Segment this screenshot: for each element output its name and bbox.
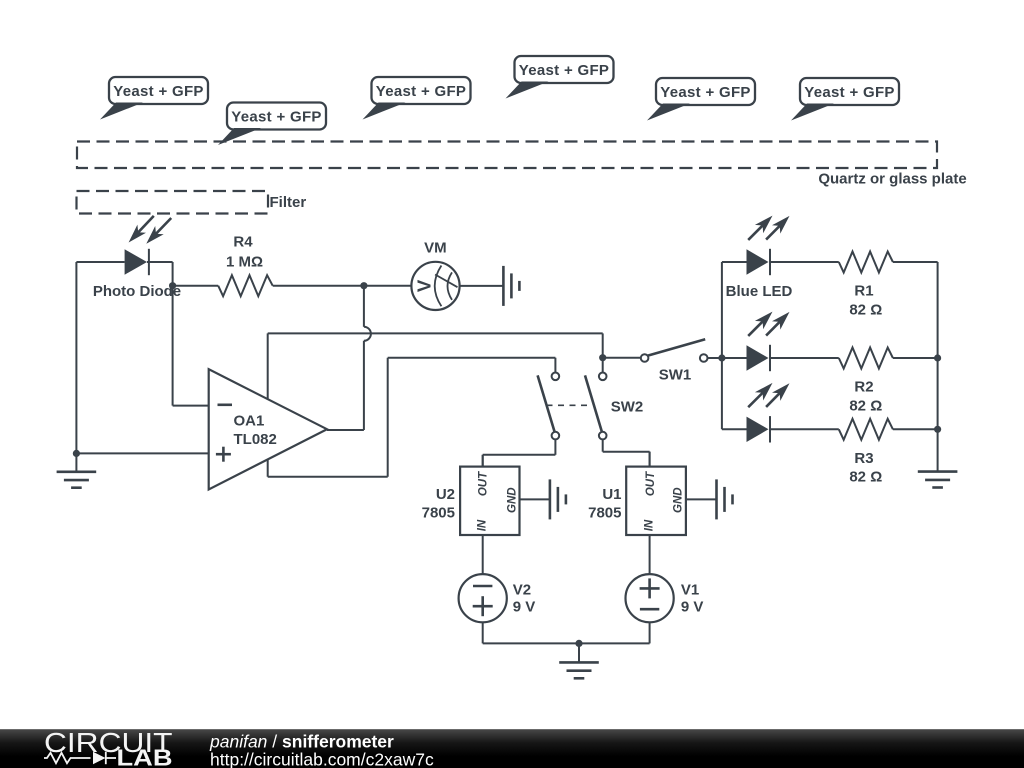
- wire: [722, 357, 747, 359]
- value 82 Ω: [849, 301, 882, 318]
- value 82 Ω: [849, 397, 882, 414]
- svg-text:R3: R3: [854, 450, 873, 467]
- light arrow into photodiode: [146, 218, 171, 244]
- label U2: [436, 486, 455, 503]
- wire: [893, 428, 938, 430]
- wire: [267, 333, 269, 476]
- svg-text:U2: U2: [436, 486, 455, 503]
- wire: [363, 341, 365, 430]
- blue LED (row R2): [747, 345, 771, 371]
- wire: [173, 285, 219, 287]
- svg-text:7805: 7805: [588, 505, 621, 522]
- wire: [268, 332, 603, 334]
- resistor R3: [839, 419, 893, 440]
- svg-text:http://circuitlab.com/c2xaw7c: http://circuitlab.com/c2xaw7c: [210, 749, 434, 768]
- speech bubble 'Yeast + GFP' #6: [791, 78, 899, 121]
- pin label OUT: [645, 471, 657, 496]
- light arrow out of LED: [748, 383, 772, 407]
- filter (dashed box): [77, 191, 269, 214]
- pin label IN: [643, 519, 655, 531]
- pin label IN: [476, 519, 488, 531]
- label V1: [681, 582, 699, 599]
- wire: [649, 535, 651, 574]
- svg-text:SW2: SW2: [611, 399, 644, 416]
- svg-text:VM: VM: [424, 240, 447, 257]
- speech bubble 'Yeast + GFP' #4: [506, 56, 614, 99]
- voltage source V1 9V: [626, 574, 674, 622]
- value 1 MΩ: [226, 253, 263, 270]
- wire: [410, 285, 412, 287]
- label TL082: [234, 431, 277, 448]
- wire: [579, 642, 650, 644]
- node junction: [934, 426, 941, 433]
- node junction: [934, 354, 941, 361]
- wire: [770, 357, 839, 359]
- wire: [273, 285, 412, 287]
- label Filter: [270, 194, 307, 211]
- resistor R1: [839, 252, 893, 273]
- ground: [57, 453, 97, 487]
- wire: [603, 357, 641, 359]
- svg-text:9 V: 9 V: [681, 599, 704, 616]
- svg-text:V: V: [414, 279, 435, 292]
- svg-text:Photo Diode: Photo Diode: [93, 283, 181, 300]
- svg-text:Yeast + GFP: Yeast + GFP: [519, 62, 609, 79]
- wire: [76, 261, 124, 263]
- pin label GND: [673, 487, 685, 513]
- resistor R4: [218, 275, 273, 296]
- blue LED (row R1): [747, 249, 771, 275]
- label VM: [424, 240, 447, 257]
- label 7805: [588, 505, 621, 522]
- op-amp OA1 TL082: [209, 369, 327, 489]
- svg-text:Filter: Filter: [270, 194, 307, 211]
- wire: [75, 262, 77, 453]
- switch SW2 pole B: [585, 373, 607, 440]
- speech bubble 'Yeast + GFP' #1: [100, 77, 208, 120]
- light arrow into photodiode: [129, 216, 154, 243]
- svg-text:R1: R1: [854, 283, 873, 300]
- wire (op-amp output): [327, 429, 364, 431]
- wire: [554, 439, 556, 454]
- wire: [460, 285, 504, 287]
- blue LED (row R3): [747, 416, 771, 442]
- speech bubble 'Yeast + GFP' #5: [647, 78, 755, 121]
- wire: [649, 452, 651, 467]
- light arrow out of LED: [766, 383, 789, 407]
- wire hop: [364, 327, 371, 341]
- wire: [147, 261, 173, 263]
- speech bubble 'Yeast + GFP' #2: [218, 103, 326, 146]
- ground: [503, 266, 519, 306]
- speech bubble 'Yeast + GFP' #3: [363, 77, 471, 120]
- wire: [482, 455, 484, 467]
- wire: [722, 261, 747, 263]
- switch SW2 pole A: [538, 373, 560, 440]
- svg-text:Blue LED: Blue LED: [726, 283, 793, 300]
- wire: [268, 476, 388, 478]
- node junction: [73, 450, 80, 457]
- wire: [722, 428, 747, 430]
- ground: [559, 662, 599, 678]
- node junction: [599, 354, 606, 361]
- footer bar: [0, 729, 1024, 768]
- voltage regulator U1 7805: [626, 467, 686, 535]
- wire: [893, 261, 938, 263]
- svg-text:U1: U1: [602, 486, 621, 503]
- label U1: [602, 486, 621, 503]
- wire (right bus): [937, 262, 939, 472]
- wire: [483, 454, 556, 456]
- wire: [483, 642, 579, 644]
- wire (op-amp non-inverting input): [76, 452, 208, 454]
- pin label OUT: [478, 471, 490, 496]
- CircuitLab logo: resistor-diode glyph: [44, 752, 116, 764]
- ground: [550, 479, 566, 519]
- node junction: [575, 640, 582, 647]
- wire: [649, 452, 651, 467]
- wire: [578, 643, 580, 662]
- wire: [554, 358, 556, 373]
- wire (LED bus): [721, 262, 723, 429]
- light arrow out of LED: [766, 312, 789, 336]
- wire: [602, 439, 604, 451]
- wire: [387, 358, 389, 477]
- wire: [363, 286, 365, 327]
- svg-text:TL082: TL082: [234, 431, 277, 448]
- svg-text:7805: 7805: [422, 505, 455, 522]
- wire: [770, 261, 839, 263]
- wire: [388, 357, 556, 359]
- svg-text:V1: V1: [681, 582, 699, 599]
- label Blue LED: [726, 283, 793, 300]
- pin label GND: [506, 487, 518, 513]
- node junction: [360, 282, 367, 289]
- quartz or glass plate (dashed box): [77, 142, 937, 169]
- wire: [482, 622, 484, 643]
- label OA1: [234, 413, 265, 430]
- value 82 Ω: [849, 469, 882, 486]
- label SW2: [611, 399, 644, 416]
- node junction: [718, 354, 725, 361]
- wire (op-amp inverting input): [173, 405, 209, 407]
- svg-text:Yeast + GFP: Yeast + GFP: [113, 83, 203, 100]
- svg-text:Yeast + GFP: Yeast + GFP: [660, 84, 750, 101]
- svg-text:GND: GND: [673, 487, 685, 513]
- wire: [893, 357, 938, 359]
- wire: [770, 428, 839, 430]
- svg-text:R4: R4: [233, 234, 253, 251]
- wire: [482, 455, 484, 467]
- svg-text:LAB: LAB: [117, 745, 173, 768]
- svg-text:IN: IN: [643, 519, 655, 531]
- switch gang link: [547, 404, 592, 406]
- label R1: [854, 283, 873, 300]
- label SW1: [659, 367, 692, 384]
- voltage regulator U2 7805: [460, 467, 519, 535]
- voltmeter VM: [411, 262, 459, 310]
- svg-text:panifan / snifferometer: panifan / snifferometer: [209, 731, 394, 751]
- light arrow out of LED: [766, 216, 789, 240]
- svg-text:OUT: OUT: [645, 471, 657, 496]
- svg-text:R2: R2: [854, 379, 873, 396]
- wire: [603, 451, 650, 453]
- wire: [686, 498, 717, 500]
- wire: [172, 262, 174, 406]
- label 7805: [422, 505, 455, 522]
- svg-text:GND: GND: [506, 487, 518, 513]
- ground: [717, 479, 733, 519]
- wire: [649, 622, 651, 643]
- resistor R2: [839, 348, 893, 369]
- light arrow out of LED: [748, 312, 772, 336]
- label R3: [854, 450, 873, 467]
- svg-text:9 V: 9 V: [513, 599, 536, 616]
- svg-text:82 Ω: 82 Ω: [849, 397, 882, 414]
- svg-text:82 Ω: 82 Ω: [849, 469, 882, 486]
- svg-text:Yeast + GFP: Yeast + GFP: [804, 84, 894, 101]
- label Quartz or glass plate: [818, 171, 966, 188]
- svg-text:IN: IN: [476, 519, 488, 531]
- svg-text:V2: V2: [513, 582, 531, 599]
- wire: [520, 498, 550, 500]
- svg-text:Quartz or glass plate: Quartz or glass plate: [818, 171, 966, 188]
- svg-text:SW1: SW1: [659, 367, 692, 384]
- svg-text:1 MΩ: 1 MΩ: [226, 253, 263, 270]
- wire: [708, 357, 722, 359]
- node junction: [169, 282, 176, 289]
- light arrow out of LED: [748, 216, 772, 240]
- label R2: [854, 379, 873, 396]
- voltage source V2 9V: [459, 574, 507, 622]
- wire: [602, 333, 604, 372]
- value 9 V: [513, 599, 536, 616]
- svg-text:OA1: OA1: [234, 413, 265, 430]
- wire: [482, 535, 484, 574]
- svg-text:Yeast + GFP: Yeast + GFP: [376, 83, 466, 100]
- svg-text:Yeast + GFP: Yeast + GFP: [231, 108, 321, 125]
- svg-text:OUT: OUT: [478, 471, 490, 496]
- photodiode D1: [125, 249, 149, 275]
- svg-text:82 Ω: 82 Ω: [849, 301, 882, 318]
- label R4: [233, 234, 253, 251]
- ground: [918, 472, 958, 488]
- label V2: [513, 582, 531, 599]
- value 9 V: [681, 599, 704, 616]
- switch SW1: [641, 339, 708, 362]
- label Photo Diode: [93, 283, 181, 300]
